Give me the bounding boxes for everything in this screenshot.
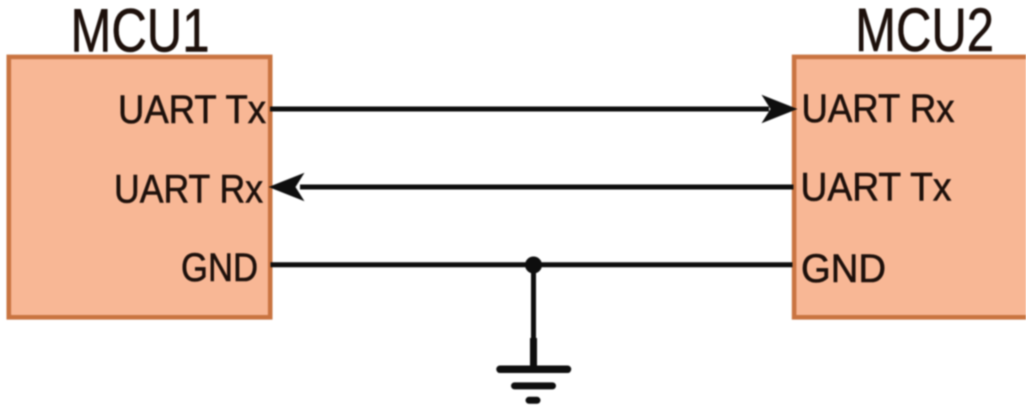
svg-text:MCU1: MCU1	[71, 0, 210, 65]
wire GND stem down from junction	[531, 265, 536, 341]
wire MCU1 UART Tx to MCU2 UART Rx	[270, 107, 769, 112]
svg-text:UART Tx: UART Tx	[118, 88, 266, 132]
junction dot GND node	[525, 257, 542, 274]
svg-text:MCU2: MCU2	[855, 0, 994, 64]
arrowhead into MCU2 UART Rx pin	[762, 95, 798, 124]
svg-text:UART Rx: UART Rx	[802, 87, 955, 131]
svg-text:GND: GND	[181, 246, 258, 290]
arrowhead into MCU1 UART Rx pin	[269, 173, 305, 202]
MCU block U1 (MCU1)	[9, 57, 270, 317]
wire GND net MCU1 to MCU2	[271, 262, 793, 267]
svg-text:GND: GND	[801, 247, 886, 291]
MCU block U2 (MCU2)	[794, 57, 1026, 317]
svg-text:UART Rx: UART Rx	[114, 168, 263, 212]
svg-text:UART Tx: UART Tx	[801, 166, 952, 210]
wire MCU2 UART Tx to MCU1 UART Rx	[300, 185, 794, 190]
ground symbol	[500, 338, 568, 400]
